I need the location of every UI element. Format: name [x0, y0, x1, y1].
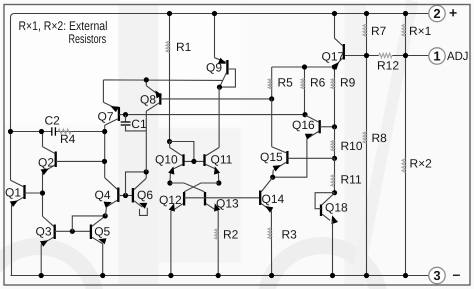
svg-text:Resistors: Resistors [69, 32, 107, 46]
junction R11 bottom / Q18 [332, 190, 337, 195]
svg-text:R4: R4 [60, 132, 76, 146]
junction Q10/Q11 base [191, 159, 196, 164]
svg-text:R9: R9 [340, 76, 356, 90]
svg-text:R6: R6 [310, 76, 326, 90]
wire Q10/Q11 base tie [184, 160, 205, 162]
wire + rail (top, pin 2) and left rail [11, 14, 429, 181]
transistor Q4 [95, 178, 133, 208]
wire Q7 emitter riser [102, 80, 104, 102]
junction Q7 collector at C2 wire [102, 129, 107, 134]
svg-text:2: 2 [433, 6, 440, 21]
wire Q15 emitter lead [272, 170, 275, 177]
wire Q12 emitter to - rail [170, 210, 172, 275]
svg-text:+: + [449, 5, 457, 21]
transistor Q13 [205, 192, 239, 212]
junction R7 at ADJ line [364, 53, 369, 58]
wire Q9 collector to Q11 [218, 87, 220, 147]
junction Q4 emitter / Q5 collector [103, 213, 108, 218]
wire Q6 collector [145, 172, 147, 178]
junction Rx2 at - rail [403, 273, 408, 278]
svg-text:R3: R3 [282, 228, 298, 242]
junction R6 top [302, 64, 307, 69]
svg-text:Q17: Q17 [322, 50, 345, 64]
wire Q5 emitter to - rail [102, 244, 104, 276]
pin 3 (-) [429, 266, 461, 284]
svg-text:Q13: Q13 [216, 197, 239, 211]
resistor R9 [331, 67, 356, 127]
wire Q4/Q6 base riser [126, 172, 147, 196]
pin 1 (ADJ) [429, 48, 469, 64]
svg-text:R10: R10 [341, 139, 363, 153]
transistor Q3 [36, 216, 90, 247]
junction R5 bottom [269, 96, 274, 101]
wire Q16 emitter [273, 139, 307, 178]
resistor Rx2 [402, 56, 432, 276]
junction Q17 at + rail [332, 11, 337, 16]
junction R2 at - rail [216, 273, 221, 278]
junction Q6 collector node [144, 169, 149, 174]
wire R1 to Q10/Q11 bases [170, 142, 194, 162]
wire R5 top / Q17 emitter node [272, 66, 335, 68]
junction Q7/Q8 emitters [144, 77, 149, 82]
wire Q7 base line [126, 114, 306, 116]
wire Q1 emitter to - rail [11, 204, 13, 275]
svg-text:Q12: Q12 [159, 193, 182, 207]
wire Q2 collector [42, 132, 44, 147]
resistor R1 [166, 14, 192, 142]
svg-text:1: 1 [433, 48, 440, 63]
svg-text:Q5: Q5 [94, 225, 110, 239]
junction Q4/Q6 base [123, 193, 128, 198]
wire Q15 collector [271, 99, 273, 147]
svg-text:Q15: Q15 [260, 150, 283, 164]
resistor R8 [363, 56, 387, 276]
wire cross left to Q13 [170, 183, 205, 192]
svg-text:R11: R11 [341, 173, 362, 187]
junction left rail / C2 [8, 129, 13, 134]
transistor Q17 [322, 38, 345, 70]
junction Q5 emitter at - rail [100, 273, 105, 278]
svg-text:C2: C2 [45, 114, 61, 128]
svg-text:ADJ: ADJ [447, 49, 469, 63]
junction Q9 at + rail [212, 11, 217, 16]
transistor Q6 [133, 178, 153, 209]
junction Q12 emitter at - rail [168, 273, 173, 278]
junction cross node left [167, 180, 172, 185]
svg-text:3: 3 [433, 268, 440, 283]
svg-text:Q3: Q3 [36, 225, 52, 239]
svg-text:Q6: Q6 [137, 188, 153, 202]
junction R7 at + rail [364, 11, 369, 16]
junction cross node right [216, 180, 221, 185]
transistor Q2 [38, 147, 105, 175]
resistor R3 [268, 210, 297, 275]
wire Q7 collector [104, 125, 106, 178]
svg-text:Q10: Q10 [155, 153, 178, 167]
resistor R10 [331, 127, 363, 159]
wire Q8 emitter lead [145, 80, 147, 86]
transistor Q9 [206, 58, 235, 87]
junction Rx1 at ADJ line [403, 53, 408, 58]
wire Q11 emitter lead [217, 173, 219, 183]
svg-text:Q4: Q4 [95, 188, 111, 202]
wire Q9 emitter from + rail [214, 14, 216, 58]
wire node C2-R4 [11, 131, 105, 133]
transistor Q8 [140, 86, 162, 111]
junction C1 tap [123, 112, 128, 117]
svg-text:Q11: Q11 [211, 153, 233, 167]
svg-text:Q16: Q16 [292, 118, 315, 132]
resistor R2 [215, 210, 239, 275]
resistor R11 [331, 158, 362, 192]
junction Q18 emitter at - rail [330, 273, 335, 278]
wire Q3 base riser [72, 216, 105, 231]
wire Q8 base [160, 98, 271, 100]
resistor R7 [363, 14, 387, 56]
svg-text:Q14: Q14 [262, 192, 285, 206]
wire Q8 collector [145, 111, 147, 172]
svg-text:R12: R12 [377, 59, 399, 73]
svg-text:R1: R1 [176, 40, 192, 54]
junction Q2 base node [102, 159, 107, 164]
junction Q9 collector-base [217, 85, 222, 90]
svg-text:Q2: Q2 [38, 156, 54, 170]
transistor Q11 [205, 148, 233, 175]
junction Q15/Q16 emitters [270, 175, 275, 180]
wire bottom - rail (pin 3) [11, 275, 429, 277]
svg-text:R8: R8 [372, 131, 388, 145]
transistor Q1 [5, 180, 43, 207]
junction Q1 base node [40, 190, 45, 195]
junction R1 at + rail [167, 11, 172, 16]
junction Rx1 at + rail [403, 11, 408, 16]
junction R3 at - rail [269, 273, 274, 278]
wire Q17 collector from + rail [334, 14, 336, 39]
wire Q10 collector lead [169, 142, 171, 148]
junction Q3 emitter at - rail [39, 273, 44, 278]
svg-text:Q18: Q18 [325, 201, 348, 215]
junction R10/R11 Q15 base [332, 156, 337, 161]
resistor R12 [377, 53, 399, 72]
svg-text:R×1: R×1 [409, 24, 432, 38]
wire Q4 emitter lead [105, 207, 106, 216]
note external resistors [19, 19, 108, 46]
transistor Q16 [292, 115, 335, 140]
transistor Q10 [155, 148, 184, 175]
svg-text:R2: R2 [223, 228, 239, 242]
transistor Q12 [159, 192, 184, 212]
junction R1 bottom [167, 139, 172, 144]
wire Q18 emitter to - rail [332, 221, 334, 276]
svg-text:Q8: Q8 [140, 93, 156, 107]
svg-text:R×2: R×2 [410, 157, 433, 171]
wire Q3 emitter to - rail [40, 244, 42, 275]
svg-text:C1: C1 [131, 117, 147, 131]
svg-text:R7: R7 [371, 24, 387, 38]
junction Q3/Q5 base [70, 229, 75, 234]
svg-text:Q7: Q7 [98, 110, 114, 124]
transistor Q5 [91, 216, 111, 244]
resistor R6 [301, 67, 326, 115]
wire Q7/Q8 emitter node to Q9 [103, 79, 223, 82]
wire Q12/Q13/Q14 base line [184, 197, 260, 199]
wire cross right to Q12 [184, 183, 219, 192]
resistor Rx1 [402, 14, 432, 56]
transistor Q18 [315, 193, 348, 225]
transistor Q7 [98, 102, 126, 125]
junction R8 at - rail [364, 273, 369, 278]
svg-text:Q1: Q1 [5, 186, 21, 200]
capacitor C1 [121, 115, 147, 131]
wire ADJ line (pin 1) [344, 55, 429, 57]
wire Q6 emitter loop [140, 208, 148, 216]
junction Q2 collector at C2 wire [39, 129, 44, 134]
junction R9 top / Q17 emitter [332, 64, 337, 69]
wire Q10 emitter lead [169, 173, 172, 183]
svg-text:R5: R5 [278, 76, 294, 90]
junction Q16 base at R9/R10 [332, 124, 337, 129]
pin 2 (+) [429, 5, 457, 22]
svg-text:–: – [453, 266, 461, 282]
capacitor C2 [45, 114, 61, 136]
junction R6 bottom / Q16 collector [302, 112, 307, 117]
wire Q2 emitter / Q3 collector [42, 172, 44, 216]
resistor R5 [268, 67, 293, 99]
transistor Q14 [260, 177, 284, 212]
transistor Q15 [260, 147, 335, 172]
svg-text:Q9: Q9 [206, 61, 222, 75]
resistor R4 [58, 129, 76, 146]
